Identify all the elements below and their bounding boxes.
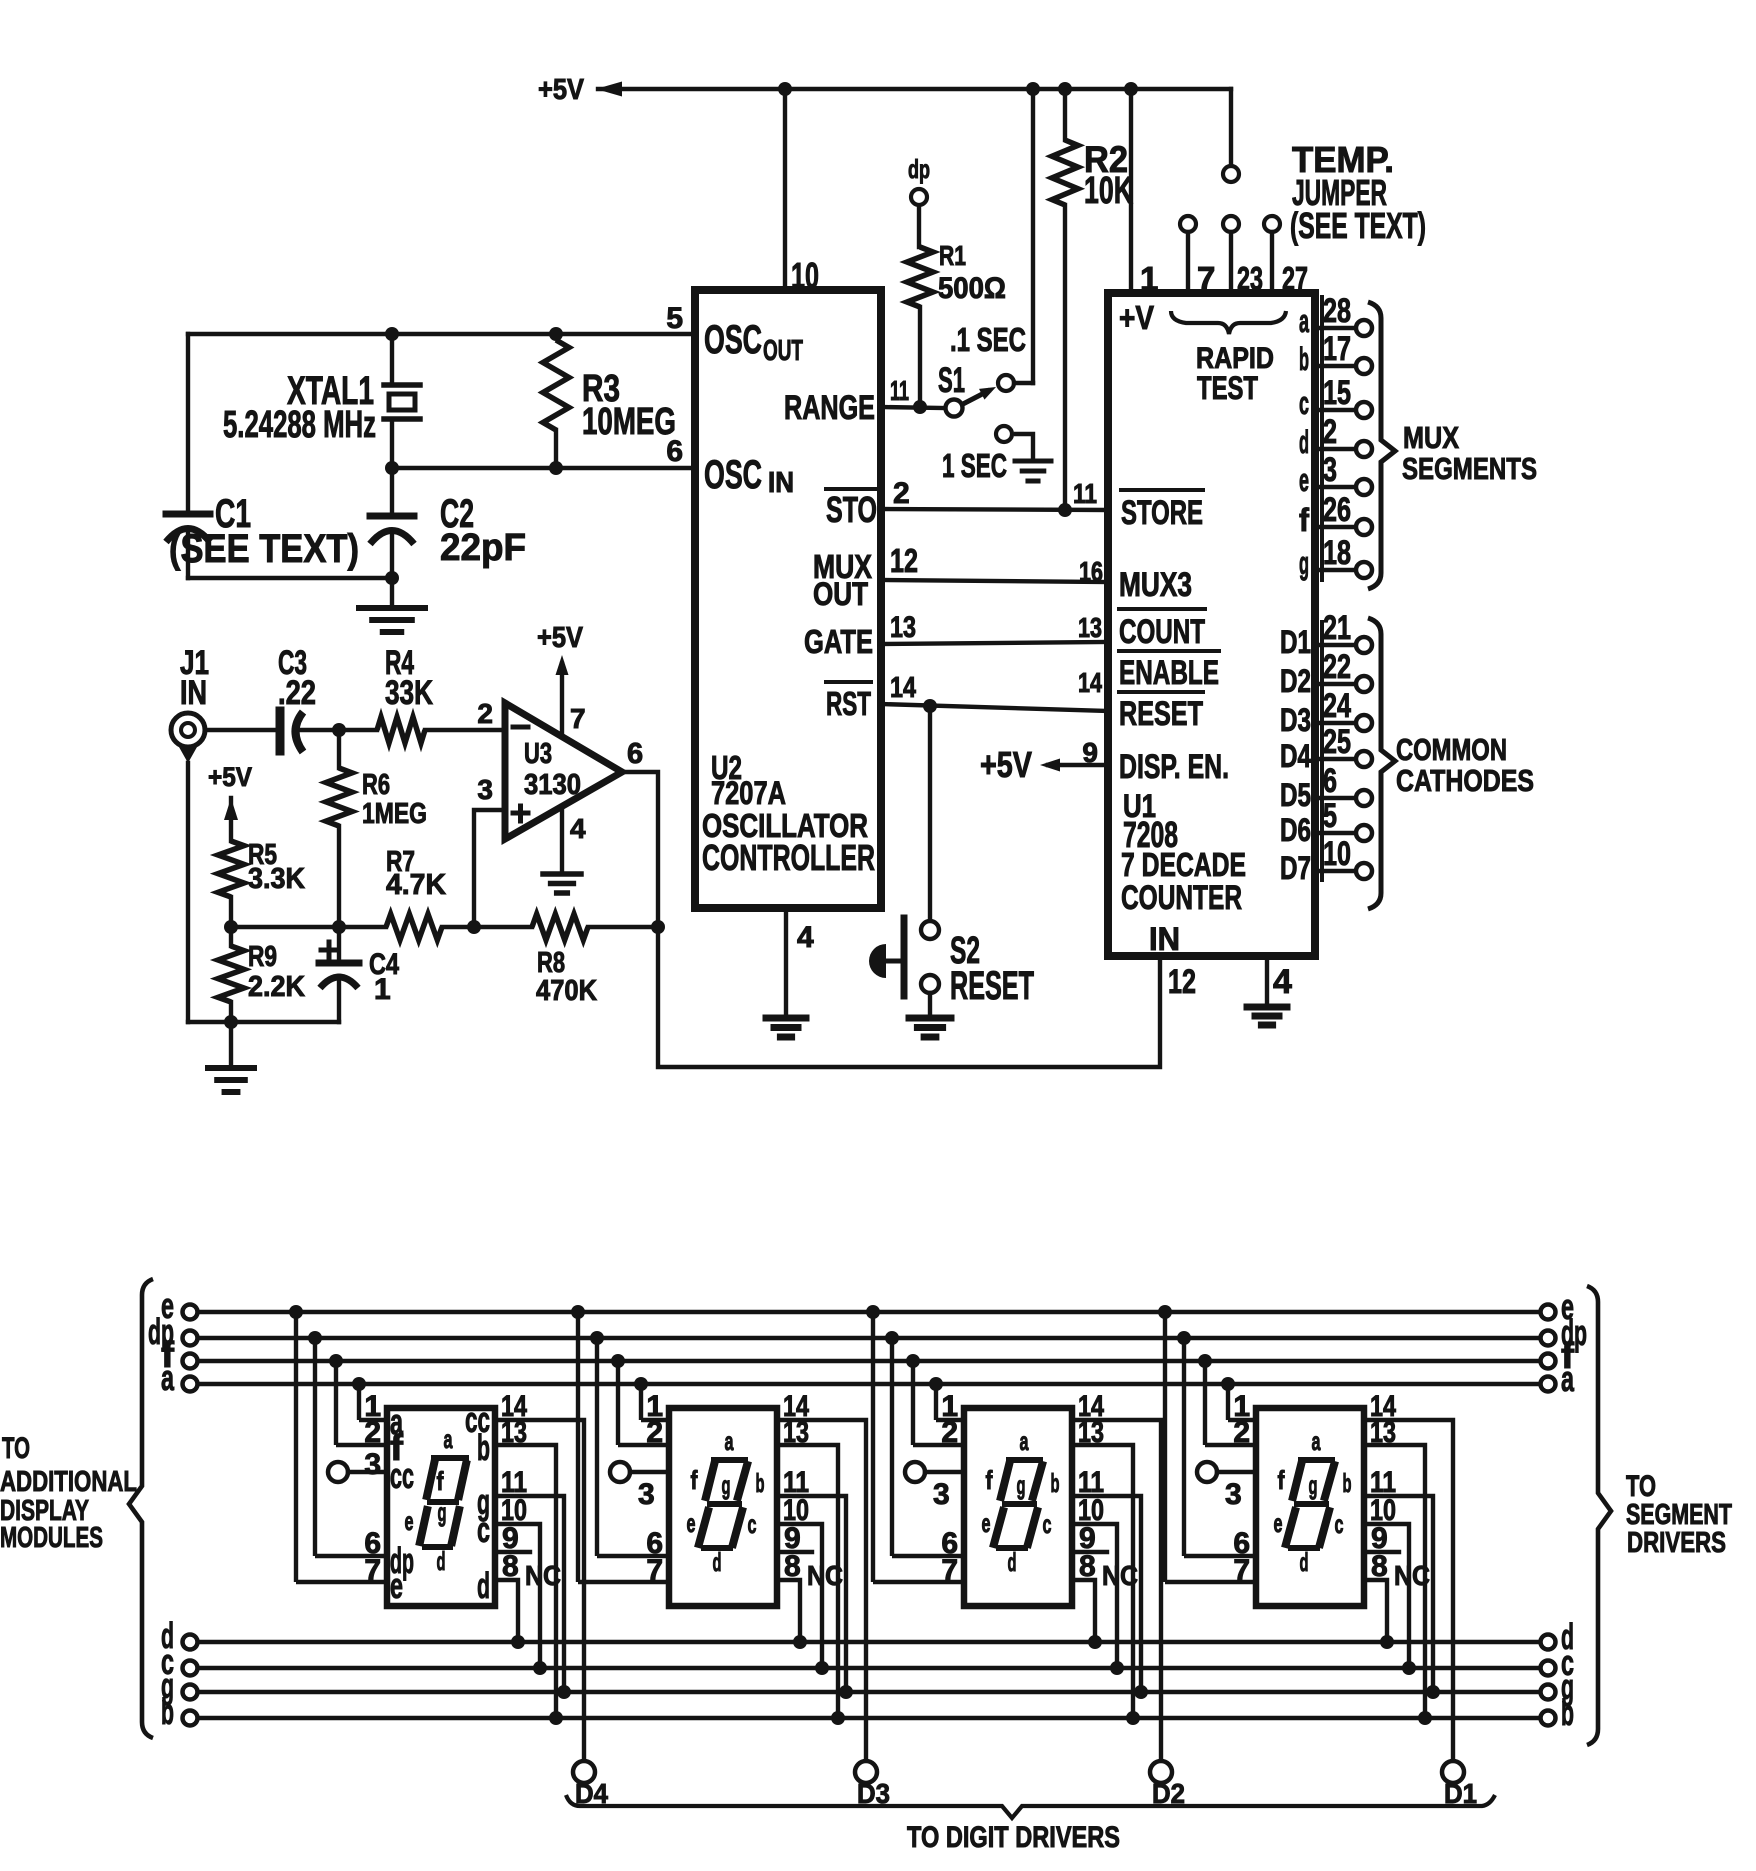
svg-text:7: 7 <box>364 1554 381 1587</box>
svg-text:e: e <box>1274 1508 1283 1538</box>
svg-text:g: g <box>1017 1470 1026 1500</box>
svg-text:ENABLE: ENABLE <box>1119 654 1219 692</box>
svg-text:16: 16 <box>1079 556 1103 587</box>
svg-text:8: 8 <box>502 1550 519 1583</box>
svg-text:28: 28 <box>1323 292 1351 330</box>
svg-text:14: 14 <box>1078 667 1102 698</box>
svg-text:470K: 470K <box>536 975 597 1007</box>
svg-text:7 DECADE: 7 DECADE <box>1121 846 1246 883</box>
svg-text:13: 13 <box>890 611 916 644</box>
svg-text:S1: S1 <box>938 361 965 400</box>
svg-text:c: c <box>477 1509 490 1550</box>
svg-text:11: 11 <box>890 375 909 406</box>
svg-text:13: 13 <box>1078 612 1102 643</box>
svg-text:c: c <box>1043 1509 1052 1539</box>
svg-text:OUT: OUT <box>763 335 803 367</box>
svg-text:1: 1 <box>374 973 391 1006</box>
svg-text:2: 2 <box>1323 413 1337 451</box>
svg-text:dp: dp <box>908 154 930 184</box>
svg-text:D4: D4 <box>1280 738 1311 774</box>
svg-text:g: g <box>1309 1470 1318 1500</box>
svg-text:e: e <box>1299 462 1309 498</box>
svg-text:a: a <box>1020 1426 1029 1456</box>
svg-text:11: 11 <box>1073 478 1097 509</box>
svg-text:12: 12 <box>1168 963 1196 1001</box>
svg-text:a: a <box>1312 1426 1321 1456</box>
svg-text:500Ω: 500Ω <box>938 272 1006 305</box>
svg-text:D5: D5 <box>1280 777 1311 813</box>
svg-text:+5V: +5V <box>537 622 584 654</box>
svg-text:R1: R1 <box>939 240 966 271</box>
svg-text:3: 3 <box>638 1478 655 1511</box>
svg-text:3.3K: 3.3K <box>248 863 305 895</box>
svg-text:R9: R9 <box>248 941 277 973</box>
svg-text:CATHODES: CATHODES <box>1396 763 1534 798</box>
svg-text:.22: .22 <box>278 674 316 712</box>
svg-text:8: 8 <box>1079 1550 1096 1583</box>
svg-text:5: 5 <box>666 302 683 335</box>
svg-text:D2: D2 <box>1280 663 1311 699</box>
svg-text:OSC: OSC <box>704 453 762 497</box>
svg-text:NC: NC <box>525 1560 561 1591</box>
svg-text:a: a <box>1561 1358 1575 1399</box>
svg-text:MUX3: MUX3 <box>1119 566 1192 604</box>
svg-text:e: e <box>687 1508 696 1538</box>
svg-text:+5V: +5V <box>538 74 585 106</box>
svg-text:IN: IN <box>180 674 207 712</box>
svg-text:3: 3 <box>364 1448 381 1481</box>
svg-text:22: 22 <box>1323 648 1351 686</box>
svg-text:26: 26 <box>1323 491 1351 529</box>
svg-text:2.2K: 2.2K <box>248 971 305 1003</box>
svg-text:COUNTER: COUNTER <box>1121 879 1242 917</box>
svg-text:e: e <box>982 1508 991 1538</box>
svg-text:e: e <box>390 1565 403 1606</box>
svg-text:7: 7 <box>1233 1554 1250 1587</box>
svg-text:b: b <box>1299 341 1309 377</box>
svg-text:d: d <box>477 1565 490 1606</box>
svg-text:+V: +V <box>1119 299 1154 336</box>
svg-text:4: 4 <box>1273 963 1292 1001</box>
svg-text:a: a <box>1299 303 1309 339</box>
svg-text:cc: cc <box>390 1455 414 1496</box>
svg-text:f: f <box>437 1466 444 1496</box>
svg-text:6: 6 <box>666 435 683 468</box>
svg-text:TEST: TEST <box>1197 370 1258 406</box>
svg-text:3: 3 <box>477 774 493 805</box>
svg-text:33K: 33K <box>385 674 433 712</box>
svg-text:d: d <box>1300 1547 1309 1577</box>
svg-text:b: b <box>161 1691 174 1732</box>
svg-text:.1 SEC: .1 SEC <box>950 321 1026 358</box>
svg-text:2: 2 <box>893 477 910 510</box>
svg-text:c: c <box>1335 1509 1344 1539</box>
svg-text:d: d <box>437 1546 446 1576</box>
svg-text:+5V: +5V <box>980 744 1032 785</box>
svg-text:8: 8 <box>1371 1550 1388 1583</box>
svg-text:g: g <box>722 1470 731 1500</box>
svg-text:d: d <box>1299 424 1309 460</box>
svg-text:+5V: +5V <box>208 762 252 792</box>
svg-text:24: 24 <box>1323 687 1351 725</box>
svg-text:f: f <box>1278 1465 1285 1495</box>
svg-text:IN: IN <box>768 467 794 499</box>
svg-text:a: a <box>444 1424 453 1454</box>
svg-text:g: g <box>438 1497 447 1527</box>
svg-text:D6: D6 <box>1280 812 1311 848</box>
svg-text:8: 8 <box>784 1550 801 1583</box>
svg-text:MODULES: MODULES <box>0 1522 103 1554</box>
svg-text:2: 2 <box>941 1416 958 1449</box>
svg-text:17: 17 <box>1323 330 1351 368</box>
svg-text:3: 3 <box>1323 451 1337 489</box>
svg-text:R6: R6 <box>362 769 390 801</box>
svg-text:14: 14 <box>890 672 916 704</box>
svg-text:f: f <box>986 1465 993 1495</box>
svg-text:a: a <box>725 1426 734 1456</box>
svg-text:13: 13 <box>1078 1416 1104 1449</box>
svg-text:21: 21 <box>1323 609 1351 647</box>
svg-text:(SEE TEXT): (SEE TEXT) <box>169 527 359 571</box>
svg-text:COMMON: COMMON <box>1396 732 1507 767</box>
svg-text:4: 4 <box>570 813 586 844</box>
svg-text:COUNT: COUNT <box>1119 613 1205 651</box>
svg-text:2: 2 <box>646 1416 663 1449</box>
svg-text:D3: D3 <box>1280 702 1311 738</box>
svg-text:15: 15 <box>1323 374 1351 412</box>
svg-text:3: 3 <box>1225 1478 1242 1511</box>
svg-text:25: 25 <box>1323 723 1351 761</box>
svg-text:D1: D1 <box>1280 624 1311 660</box>
svg-text:7207A: 7207A <box>711 775 786 811</box>
svg-text:5: 5 <box>1323 797 1337 835</box>
svg-text:c: c <box>748 1509 757 1539</box>
svg-text:DISP. EN.: DISP. EN. <box>1119 748 1229 786</box>
svg-text:b: b <box>477 1427 490 1468</box>
svg-text:STO: STO <box>826 489 877 530</box>
svg-text:3: 3 <box>933 1478 950 1511</box>
svg-text:12: 12 <box>890 542 918 579</box>
svg-text:10: 10 <box>1323 835 1351 873</box>
svg-text:SEGMENTS: SEGMENTS <box>1402 451 1537 486</box>
svg-text:CONTROLLER: CONTROLLER <box>702 837 875 878</box>
svg-text:2: 2 <box>477 698 493 729</box>
svg-text:e: e <box>405 1506 414 1536</box>
svg-text:7: 7 <box>941 1554 958 1587</box>
svg-text:2: 2 <box>1233 1416 1250 1449</box>
svg-text:7: 7 <box>646 1554 663 1587</box>
svg-text:RST: RST <box>826 685 871 722</box>
svg-text:STORE: STORE <box>1121 494 1203 532</box>
svg-text:6: 6 <box>1323 762 1337 800</box>
svg-text:13: 13 <box>1370 1416 1396 1449</box>
svg-text:d: d <box>1008 1547 1017 1577</box>
svg-text:TO DIGIT DRIVERS: TO DIGIT DRIVERS <box>907 1821 1120 1854</box>
svg-text:MUX: MUX <box>1403 420 1459 455</box>
svg-text:OUT: OUT <box>813 576 868 612</box>
svg-text:RESET: RESET <box>950 964 1034 1008</box>
svg-text:c: c <box>1299 385 1309 421</box>
svg-text:d: d <box>713 1547 722 1577</box>
svg-text:b: b <box>1051 1468 1060 1498</box>
svg-text:DRIVERS: DRIVERS <box>1627 1527 1726 1559</box>
svg-text:GATE: GATE <box>804 623 873 660</box>
svg-text:7: 7 <box>570 703 586 734</box>
svg-text:1MEG: 1MEG <box>362 798 427 830</box>
svg-text:5.24288 MHz: 5.24288 MHz <box>223 404 376 446</box>
svg-text:TO: TO <box>2 1432 30 1465</box>
svg-text:b: b <box>756 1468 765 1498</box>
svg-text:b: b <box>1343 1468 1352 1498</box>
svg-text:U3: U3 <box>524 738 552 770</box>
svg-text:D7: D7 <box>1280 850 1311 886</box>
svg-text:2: 2 <box>364 1416 381 1449</box>
svg-text:10K: 10K <box>1084 170 1133 212</box>
svg-text:ADDITIONAL: ADDITIONAL <box>0 1466 137 1498</box>
svg-text:4: 4 <box>797 921 814 954</box>
svg-text:22pF: 22pF <box>440 527 526 569</box>
svg-text:10MEG: 10MEG <box>582 401 676 443</box>
svg-text:RANGE: RANGE <box>784 389 875 427</box>
svg-text:g: g <box>1299 545 1309 581</box>
svg-text:1 SEC: 1 SEC <box>942 447 1007 484</box>
svg-text:NC: NC <box>1102 1560 1138 1591</box>
svg-text:NC: NC <box>807 1560 843 1591</box>
svg-text:f: f <box>1299 502 1309 538</box>
svg-text:4.7K: 4.7K <box>386 869 446 901</box>
svg-text:b: b <box>1561 1692 1574 1733</box>
svg-text:a: a <box>161 1357 175 1398</box>
svg-text:IN: IN <box>1149 921 1180 957</box>
svg-text:RESET: RESET <box>1119 695 1203 733</box>
svg-text:13: 13 <box>501 1416 527 1449</box>
svg-text:13: 13 <box>783 1416 809 1449</box>
svg-text:OSC: OSC <box>704 318 762 362</box>
svg-text:(SEE TEXT): (SEE TEXT) <box>1290 205 1426 246</box>
svg-text:6: 6 <box>627 738 643 770</box>
svg-text:f: f <box>691 1465 698 1495</box>
svg-text:3130: 3130 <box>524 769 581 801</box>
svg-text:18: 18 <box>1323 534 1351 572</box>
svg-text:NC: NC <box>1394 1560 1430 1591</box>
